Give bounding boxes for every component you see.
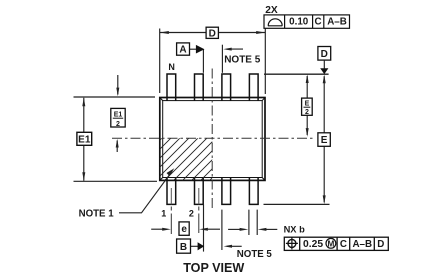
E1 dimension xyxy=(82,98,85,181)
pin 8 (top row left, pin N) xyxy=(167,74,176,101)
svg-text:B: B xyxy=(180,242,187,253)
svg-text:1: 1 xyxy=(161,209,166,219)
pin 1 index hatch area (NOTE 1) xyxy=(119,137,280,181)
svg-text:E1: E1 xyxy=(114,112,123,119)
svg-text:0.25: 0.25 xyxy=(303,239,323,250)
svg-text:E1: E1 xyxy=(78,135,91,146)
E label box xyxy=(318,133,330,147)
datum D symbol xyxy=(318,47,331,75)
pin2 centerline below xyxy=(198,188,200,204)
svg-text:NX b: NX b xyxy=(284,225,305,235)
svg-text:D: D xyxy=(209,28,216,39)
pin 7 (top row) xyxy=(195,74,204,101)
NOTE5 extension line (pin3 left edge) xyxy=(221,210,223,250)
E dimension extension lines xyxy=(264,74,330,204)
datum B symbol xyxy=(177,239,205,253)
pin 5 (top row right) xyxy=(249,74,258,101)
package body outline xyxy=(160,98,265,181)
datum B extension line (pin2 right edge) xyxy=(203,204,205,251)
pin 2 (bottom row) xyxy=(195,178,204,205)
E dimension xyxy=(323,75,326,205)
NOTE 1 callout with leader xyxy=(79,168,175,219)
svg-text:D: D xyxy=(377,239,384,250)
e label box xyxy=(179,222,189,235)
dimension D label box xyxy=(206,27,218,39)
svg-text:A–B: A–B xyxy=(327,16,347,27)
svg-text:TOP VIEW: TOP VIEW xyxy=(183,261,244,275)
svg-text:D: D xyxy=(321,49,328,60)
svg-text:E: E xyxy=(321,135,328,146)
svg-text:N: N xyxy=(168,62,175,72)
E/2 label box xyxy=(302,98,313,116)
pin 3 (bottom row) xyxy=(222,178,231,205)
dimension D extension lines xyxy=(160,28,266,94)
E1/2 label box xyxy=(111,108,125,127)
svg-text:E: E xyxy=(305,101,310,108)
E1 dimension extension lines xyxy=(74,97,158,181)
NOTE 5 top callout xyxy=(222,45,260,73)
NOTE 5 bottom callout xyxy=(224,245,273,260)
position tolerance feature control frame xyxy=(284,237,388,250)
pin 6 (top row) xyxy=(222,74,231,101)
svg-text:2: 2 xyxy=(189,209,194,219)
svg-text:C: C xyxy=(314,16,321,27)
svg-text:0.10: 0.10 xyxy=(289,16,309,27)
profile tolerance feature control frame xyxy=(264,15,350,28)
e dimension xyxy=(151,228,220,231)
svg-text:2X: 2X xyxy=(265,5,278,16)
E1/2 dimension arrows xyxy=(116,75,120,152)
E/2 dimension xyxy=(306,74,309,137)
svg-text:C: C xyxy=(340,239,347,250)
vertical centerline xyxy=(211,69,213,210)
b extension lines (pin4 edges) xyxy=(249,210,257,235)
dimension D line with arrows xyxy=(160,31,266,34)
svg-text:A: A xyxy=(179,45,186,56)
svg-text:NOTE 1: NOTE 1 xyxy=(79,208,115,219)
svg-text:2: 2 xyxy=(116,121,120,128)
package body inner outline xyxy=(160,98,265,181)
pin 1 (bottom row) xyxy=(167,178,176,205)
svg-text:M: M xyxy=(327,239,334,248)
pin 4 (bottom row) xyxy=(249,178,258,205)
E1 label box xyxy=(77,132,92,145)
b dimension arrows xyxy=(228,228,277,231)
svg-text:A–B: A–B xyxy=(352,239,372,250)
svg-text:e: e xyxy=(181,224,187,235)
svg-text:2: 2 xyxy=(305,109,309,116)
horizontal centerline xyxy=(112,137,313,139)
datum A symbol xyxy=(177,43,205,73)
svg-text:NOTE 5: NOTE 5 xyxy=(237,249,273,260)
pin1 centerline below xyxy=(170,188,172,204)
svg-text:NOTE 5: NOTE 5 xyxy=(224,55,261,66)
